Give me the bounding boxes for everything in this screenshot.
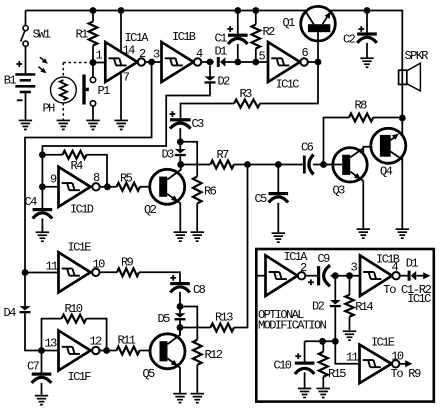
svg-text:P1: P1 [98, 84, 111, 98]
svg-text:IC1D: IC1D [70, 203, 94, 217]
svg-text:C8: C8 [193, 283, 206, 297]
svg-text:To R9: To R9 [391, 367, 422, 381]
svg-text:IC1C: IC1C [276, 78, 300, 92]
svg-text:R15: R15 [328, 367, 346, 381]
svg-text:R8: R8 [355, 99, 368, 113]
svg-text:10: 10 [391, 350, 404, 364]
svg-text:SW1: SW1 [33, 28, 51, 42]
svg-text:IC1C: IC1C [407, 292, 431, 306]
svg-text:R10: R10 [65, 302, 83, 316]
svg-text:10: 10 [93, 258, 106, 272]
svg-text:Q2: Q2 [144, 203, 157, 217]
svg-text:R4: R4 [71, 159, 84, 173]
svg-text:Q3: Q3 [333, 184, 346, 198]
svg-text:C1: C1 [215, 32, 228, 46]
svg-text:11: 11 [46, 260, 59, 274]
svg-text:PH: PH [43, 102, 56, 116]
svg-text:MODIFICATION: MODIFICATION [258, 319, 327, 333]
svg-text:R11: R11 [118, 334, 136, 348]
svg-text:R13: R13 [215, 311, 233, 325]
svg-text:SPKR: SPKR [405, 49, 429, 63]
svg-text:R5: R5 [120, 172, 133, 186]
svg-text:C6: C6 [301, 141, 314, 155]
svg-text:C10: C10 [274, 359, 292, 373]
svg-text:R1: R1 [76, 28, 89, 42]
svg-text:R14: R14 [355, 300, 373, 314]
svg-text:Q4: Q4 [380, 165, 393, 179]
svg-text:D1: D1 [406, 257, 419, 271]
svg-text:R6: R6 [204, 185, 217, 199]
svg-text:R7: R7 [217, 148, 230, 162]
svg-text:12: 12 [90, 335, 103, 349]
svg-text:R2: R2 [263, 25, 276, 39]
svg-text:C7: C7 [27, 360, 40, 374]
svg-text:D2: D2 [218, 75, 231, 89]
svg-text:B1: B1 [4, 74, 17, 88]
svg-text:Q5: Q5 [143, 367, 156, 381]
svg-text:D2: D2 [312, 300, 325, 314]
svg-text:R12: R12 [205, 348, 223, 362]
svg-text:IC1B: IC1B [172, 30, 196, 44]
svg-text:IC1E: IC1E [68, 241, 92, 255]
svg-text:IC1E: IC1E [371, 336, 395, 350]
svg-text:C4: C4 [25, 195, 38, 209]
svg-text:C5: C5 [255, 192, 268, 206]
svg-text:Q1: Q1 [283, 16, 296, 30]
svg-text:R9: R9 [121, 256, 134, 270]
svg-text:14: 14 [123, 44, 136, 58]
svg-text:D5: D5 [158, 312, 171, 326]
svg-text:C3: C3 [192, 117, 205, 131]
svg-text:D1: D1 [215, 45, 228, 59]
svg-text:D3: D3 [162, 148, 175, 162]
svg-text:R3: R3 [240, 87, 253, 101]
svg-text:C9: C9 [318, 252, 331, 266]
svg-text:13: 13 [45, 337, 58, 351]
svg-text:C2: C2 [343, 33, 356, 47]
svg-text:11: 11 [346, 351, 359, 365]
svg-text:D4: D4 [4, 306, 17, 320]
svg-text:IC1F: IC1F [68, 370, 92, 384]
